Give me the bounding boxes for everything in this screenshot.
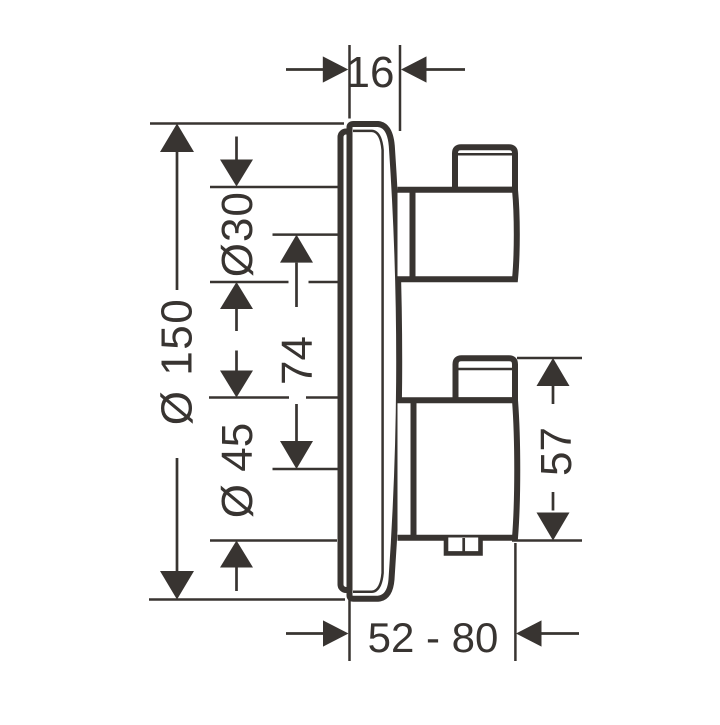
extension line lower knob bottom right (for 57) bbox=[512, 539, 582, 542]
extension line lower knob top (for D45) bbox=[209, 396, 289, 399]
dimension D45 bottom arrow bbox=[220, 541, 253, 568]
svg-text:74: 74 bbox=[273, 336, 322, 385]
escutcheon cover plate bbox=[350, 124, 400, 599]
svg-text:16: 16 bbox=[346, 48, 395, 97]
dimension 52-80 left leader bbox=[286, 632, 323, 635]
dimension D30 top arrow bbox=[220, 160, 253, 187]
dimension 16 right leader bbox=[427, 68, 466, 71]
extension line wall plane bottom (for 52-80) bbox=[348, 598, 351, 662]
extension line lower knob centre (for 74 bottom) bbox=[273, 468, 339, 471]
extension line upper knob top (for D30) bbox=[210, 186, 338, 189]
dimension 16 left leader bbox=[286, 68, 323, 71]
dimension 52-80 left arrow bbox=[323, 620, 349, 646]
upper knob cap bbox=[455, 147, 515, 189]
dimension D30 lower leader bbox=[235, 309, 238, 331]
svg-text:Ø 45: Ø 45 bbox=[213, 423, 262, 518]
dimension 16 right arrow bbox=[401, 56, 427, 82]
safety stop tab on lower knob bbox=[446, 538, 481, 554]
dimension D150 line bbox=[176, 152, 179, 572]
upper knob cap inner line bbox=[458, 153, 513, 156]
back seal capsule bbox=[341, 132, 352, 591]
dimension 57 line bbox=[552, 386, 555, 511]
extension line wall plane top (for 16) bbox=[348, 45, 351, 119]
dimension 74 line bbox=[295, 263, 298, 441]
dimension D45 upper leader bbox=[235, 351, 238, 372]
dimension 57 top arrow bbox=[537, 358, 570, 386]
svg-text:Ø30: Ø30 bbox=[213, 191, 262, 277]
extension line upper knob centre (for 74 top) bbox=[273, 233, 339, 236]
lower knob cap bbox=[456, 358, 516, 400]
dimension D45 lower leader bbox=[235, 568, 238, 592]
upper knob grip back edge bbox=[410, 187, 416, 282]
extension line plate bottom (for D150) bbox=[149, 598, 345, 601]
dimension 57 bottom arrow bbox=[537, 513, 570, 541]
upper knob grip body bbox=[398, 190, 517, 280]
extension line knob front (for 52-80) bbox=[514, 543, 517, 661]
dimension 74 bottom arrow bbox=[280, 441, 313, 469]
extension line upper knob bottom (for D30) bbox=[210, 281, 289, 284]
lower knob grip back edge bbox=[411, 398, 417, 541]
dimension D30 bottom arrow bbox=[220, 282, 253, 309]
safety stop tab divider bbox=[462, 538, 465, 553]
dimension D45 top arrow bbox=[220, 371, 253, 398]
svg-text:Ø 150: Ø 150 bbox=[153, 298, 202, 425]
lower knob cap inner line bbox=[458, 368, 512, 371]
extension line cover front top (for 16) bbox=[399, 45, 402, 131]
svg-text:52 - 80: 52 - 80 bbox=[368, 614, 499, 661]
dimension 16 left arrow bbox=[323, 56, 349, 82]
dimension 52-80 right arrow bbox=[516, 620, 542, 646]
extension line lower knob bottom (for D45) bbox=[210, 539, 337, 542]
dimension 74 top arrow bbox=[280, 235, 313, 263]
dimension 52-80 right leader bbox=[542, 632, 580, 635]
dimension D30 upper leader bbox=[235, 137, 238, 161]
extension line lower cap top (for 57) bbox=[517, 357, 582, 360]
extension line plate top (for D150) bbox=[150, 122, 344, 125]
svg-text:57: 57 bbox=[532, 427, 581, 476]
dimension D150 top arrow bbox=[160, 124, 194, 153]
lower knob grip body bbox=[398, 400, 518, 538]
cover inner rim contour bbox=[353, 131, 383, 592]
dimension D150 bottom arrow bbox=[160, 571, 194, 600]
